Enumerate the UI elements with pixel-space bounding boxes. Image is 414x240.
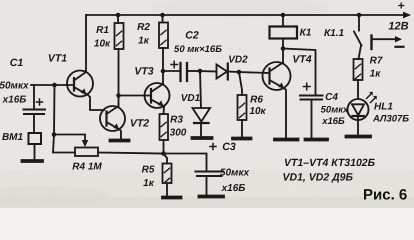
label C3 [220, 141, 250, 194]
wire VT3 emitter to R3 [163, 107, 166, 115]
transistor VT2 [100, 106, 125, 131]
svg-text:HL1: HL1 [374, 102, 393, 113]
capacitor C1 [24, 85, 46, 133]
microphone BM1 [29, 133, 42, 160]
wire top supply rail [86, 14, 404, 16]
label R1 [94, 25, 111, 50]
wire VT4 collector to relay [282, 49, 284, 63]
svg-text:С4: С4 [325, 92, 338, 103]
svg-text:VD1, VD2 Д9Б: VD1, VD2 Д9Б [283, 172, 354, 184]
label R5 [142, 165, 155, 190]
svg-text:12В: 12В [388, 21, 408, 33]
label C2 [174, 30, 222, 56]
ground VT4 [275, 138, 298, 142]
wire R4 right to R3/R5 node [98, 153, 164, 154]
svg-text:1к: 1к [138, 36, 150, 47]
svg-text:1к: 1к [143, 178, 155, 189]
wire VT2 emitter to ground [120, 130, 122, 140]
wire VT4 emitter to ground [285, 89, 287, 139]
svg-text:ВМ1: ВМ1 [2, 132, 24, 143]
node rail-R2 [160, 13, 165, 18]
resistor R6 [238, 72, 247, 137]
wire VT2 collector [118, 96, 120, 107]
svg-text:R1: R1 [96, 25, 109, 36]
wire C4 top branch [283, 49, 316, 96]
svg-text:R7: R7 [370, 56, 383, 67]
potentiometer R4 [75, 148, 98, 157]
svg-text:300: 300 [170, 128, 187, 139]
wire VT3 collector [162, 71, 164, 84]
svg-text:VT2: VT2 [130, 118, 149, 130]
resistor R3 [160, 114, 169, 154]
ground BM1 [23, 159, 43, 163]
svg-text:1к: 1к [370, 69, 382, 80]
node VT1 base [52, 83, 57, 88]
svg-text:VT1: VT1 [48, 53, 67, 65]
wire VT1 base [31, 84, 74, 86]
svg-text:R6: R6 [250, 95, 263, 106]
svg-text:50 мк×16Б: 50 мк×16Б [174, 44, 222, 55]
label R6 [249, 95, 266, 118]
node rail-K1.1 [357, 13, 362, 18]
transistor VT4 [263, 62, 291, 90]
svg-text:х16Б: х16Б [221, 183, 246, 194]
transistor VT3 [145, 83, 170, 108]
resistor R1 [115, 15, 124, 96]
svg-text:АЛ307Б: АЛ307Б [372, 114, 409, 125]
resistor R5 [163, 154, 172, 197]
svg-text:VD1: VD1 [181, 93, 201, 104]
ground C4 [306, 138, 328, 142]
capacitor C4 [300, 83, 323, 138]
svg-text:10к: 10к [249, 106, 266, 117]
svg-text:R3: R3 [170, 115, 183, 126]
node VT3 collector / C2 [161, 69, 166, 74]
label R3 [170, 115, 187, 139]
LED HL1 [348, 92, 377, 135]
node C2 / VD1 / VD2 [198, 69, 203, 74]
svg-text:Рис. 6: Рис. 6 [363, 187, 407, 204]
wire node to C3 [164, 154, 207, 172]
ground VT2 [111, 139, 129, 143]
node R1 / VT2 collector / VT3 base [116, 93, 121, 98]
wire VT1 emitter to VT2 base [88, 95, 104, 110]
label C4 [321, 92, 349, 127]
wire VT3 base [119, 95, 152, 97]
wire VT1 collector to rail [85, 15, 87, 72]
switch K1.1 [354, 15, 362, 59]
ground R5 [163, 196, 181, 200]
relay K1 [270, 15, 298, 49]
wire VT4 base [239, 72, 270, 73]
label HL1 [372, 102, 409, 125]
svg-text:VT1–VT4 КТ3102Б: VT1–VT4 КТ3102Б [284, 157, 376, 169]
diode VD2 [200, 64, 239, 80]
connector 12V plug [372, 36, 404, 50]
label R7 [370, 56, 383, 80]
svg-text:50мкх: 50мкх [321, 105, 349, 116]
ground HL1 [347, 135, 371, 139]
ground C3 [200, 195, 224, 199]
svg-text:R4 1М: R4 1М [72, 162, 102, 173]
svg-text:10к: 10к [94, 39, 111, 50]
supply arrow + [403, 12, 411, 19]
label C1 [0, 57, 29, 106]
svg-text:С2: С2 [185, 30, 199, 42]
resistor R2 [159, 15, 168, 71]
node rail-K1 [281, 13, 286, 18]
svg-text:С1: С1 [10, 57, 24, 69]
svg-text:С3: С3 [222, 141, 236, 153]
node VD2 / R6 / VT4 base [237, 70, 242, 75]
svg-text:50мкх: 50мкх [220, 168, 250, 179]
svg-text:К1.1: К1.1 [324, 28, 344, 39]
svg-text:VT4: VT4 [292, 54, 311, 66]
svg-text:+: + [397, 0, 404, 13]
svg-text:VT3: VT3 [134, 66, 153, 78]
svg-text:х16Б: х16Б [2, 95, 27, 106]
wire R4 wiper [54, 135, 85, 142]
resistor R7 [354, 59, 363, 99]
node R4 wiper tee [52, 132, 57, 137]
svg-text:VD2: VD2 [228, 55, 248, 66]
node R3/R5/R4/C3 [161, 151, 166, 156]
label R2 [137, 22, 150, 47]
svg-text:R5: R5 [142, 165, 155, 176]
diode VD1 [193, 71, 211, 137]
transistor VT1 [67, 71, 93, 97]
svg-text:R2: R2 [137, 22, 150, 33]
svg-text:х16Б: х16Б [321, 116, 345, 127]
ground VD1 [193, 136, 212, 140]
svg-text:К1: К1 [300, 28, 312, 39]
node rail-R1 [116, 13, 121, 18]
svg-text:50мкх: 50мкх [0, 81, 29, 92]
wire VT1 base to R4 [53, 85, 75, 153]
capacitor C3 [196, 144, 224, 196]
node VT4 collector / C4 branch [281, 46, 286, 51]
capacitor C2 [163, 61, 200, 81]
ground R6 [233, 137, 251, 141]
